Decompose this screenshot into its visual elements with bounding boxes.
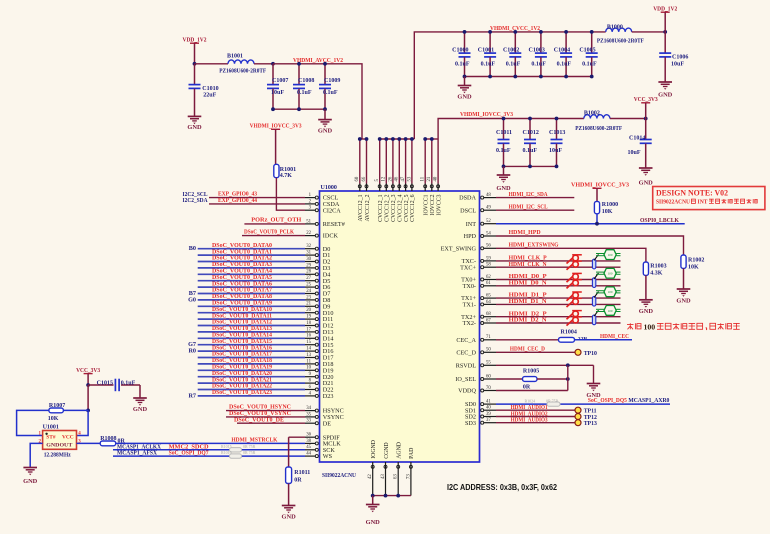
junction node IOVCC top C1011 (502, 117, 506, 121)
junction node CVCC top C1002 (513, 30, 517, 34)
svg-text:64: 64 (486, 300, 491, 305)
svg-text:TX2-: TX2- (463, 320, 476, 327)
svg-text:R1000: R1000 (602, 202, 618, 208)
wire DATA22 to D22 (198, 389, 305, 391)
svg-text:HDMI_CEC: HDMI_CEC (600, 333, 629, 340)
wire CEC_D to TP10 (496, 351, 575, 353)
wire SPDIF to R1011 (289, 437, 305, 467)
svg-text:TP11: TP11 (584, 409, 597, 415)
pin 32 D0 (305, 244, 330, 253)
capacitor C1014 (628, 119, 652, 169)
svg-text:68: 68 (486, 312, 491, 317)
capacitor C1011 (496, 119, 512, 167)
wire DATA1 to D1 (198, 254, 305, 256)
svg-text:33: 33 (306, 419, 311, 424)
svg-text:51: 51 (306, 219, 311, 224)
wire HDMI_CLK_P (496, 260, 621, 262)
ground R1011 (281, 506, 296, 521)
pin 62 TX0+ (461, 275, 496, 284)
svg-text:66: 66 (362, 176, 367, 181)
power flag VHDMI_IOVCC_3V3 pullup (250, 123, 302, 165)
capacitor C1006 (659, 32, 688, 82)
svg-text:32: 32 (306, 244, 311, 249)
svg-text:DESIGN NOTE: V02: DESIGN NOTE: V02 (656, 188, 729, 198)
svg-text:HDMI_CEC_D: HDMI_CEC_D (510, 345, 545, 352)
svg-text:SoC_OSPI_DQ5: SoC_OSPI_DQ5 (588, 397, 627, 404)
pin 12 CVCC12_2 (382, 176, 391, 222)
svg-text:34: 34 (306, 406, 311, 411)
pin 19 D11 (305, 315, 333, 324)
pin 17 D13 (305, 327, 333, 336)
svg-text:0.1uF: 0.1uF (496, 148, 511, 154)
wire I2C2_SCL to CSCL (209, 197, 305, 199)
svg-text:22: 22 (306, 231, 311, 236)
svg-text:4.3K: 4.3K (650, 270, 663, 276)
svg-text:12.288MHz: 12.288MHz (44, 452, 71, 458)
svg-text:54: 54 (486, 231, 491, 236)
wire HDMI_D2_N (496, 322, 621, 324)
svg-text:HPD: HPD (464, 233, 477, 240)
common-mode choke HDMI_D2_P/HDMI_D2_N (596, 306, 621, 316)
pin 6 D22 (305, 385, 333, 394)
svg-text:0R: 0R (294, 478, 302, 484)
pin 44 WS (305, 452, 333, 461)
svg-text:C1003: C1003 (529, 48, 545, 54)
svg-text:44: 44 (306, 452, 311, 457)
wire HDMI_D1_P (496, 297, 621, 299)
svg-text:10uF: 10uF (671, 62, 684, 68)
svg-text:B1000: B1000 (607, 24, 623, 30)
svg-text:G0: G0 (188, 296, 196, 303)
svg-text:RSVDL: RSVDL (456, 362, 477, 369)
svg-text:C1010: C1010 (202, 86, 218, 92)
svg-text:C1000: C1000 (452, 48, 468, 54)
pin 3 CI2CA (305, 206, 341, 215)
wire B1000 to VDD_1V2 (632, 31, 666, 33)
svg-text:GND: GND (133, 406, 148, 413)
junction node AVCC cap top C1009 (323, 62, 327, 66)
svg-text:56: 56 (486, 244, 491, 249)
svg-text:0.1uF: 0.1uF (323, 90, 338, 96)
svg-text:60: 60 (355, 176, 360, 181)
svg-text:45: 45 (306, 445, 311, 450)
resistor R1007 (48, 403, 65, 422)
svg-text:GND: GND (366, 519, 381, 526)
test point TP13 (575, 420, 597, 428)
svg-text:0.1uF: 0.1uF (557, 62, 572, 68)
wire CVCC caps bottom rail (465, 76, 592, 78)
wire DATA7 to D7 (198, 293, 305, 295)
svg-text:48: 48 (486, 193, 491, 198)
wire SD0 (496, 403, 670, 405)
svg-text:22uF: 22uF (203, 93, 216, 99)
svg-text:100: 100 (608, 290, 613, 294)
svg-text:TX1-: TX1- (463, 302, 476, 309)
pin 21 D9 (305, 302, 330, 311)
ground C1015 (133, 398, 148, 413)
svg-text:C1001: C1001 (478, 48, 494, 54)
resistor R1008 (100, 436, 125, 446)
ground C1014 (639, 168, 654, 187)
svg-text:0.1uF: 0.1uF (481, 62, 496, 68)
svg-text:R7: R7 (188, 392, 196, 399)
wire C1015 to ground (139, 385, 141, 398)
svg-text:DSCL: DSCL (460, 207, 476, 214)
svg-text:GND: GND (187, 124, 202, 131)
svg-text:31: 31 (306, 251, 311, 256)
wire HDMI_AUDIO3 (496, 422, 575, 424)
pin 20 D10 (305, 308, 333, 317)
pin 27 D5 (305, 276, 330, 285)
svg-text:IDCK: IDCK (323, 233, 339, 240)
wire AVCC rail (273, 64, 362, 139)
svg-text:10: 10 (306, 366, 311, 371)
ESD diode array HDMI_D1_P/HDMI_D1_N (567, 292, 582, 307)
pin 53 CVCC12_6 (407, 176, 416, 222)
svg-text:PZ1608U600-2R0TF: PZ1608U600-2R0TF (219, 68, 266, 74)
svg-text:DE: DE (323, 420, 331, 427)
power flag VDD_1V2 right (653, 6, 678, 32)
link to choke HDMI_D0_P (594, 273, 598, 279)
wire DATA2 to D2 (198, 261, 305, 263)
junction node RSVDL (566, 363, 570, 367)
pin 37 SD3 (465, 418, 496, 427)
wire R1000 to INT (596, 214, 598, 224)
coupling element HDMI_D2_P (592, 315, 595, 325)
junction node IOVCC bus 1 (423, 137, 427, 141)
svg-text:13: 13 (306, 353, 311, 358)
svg-text:EXT_SWING: EXT_SWING (441, 245, 477, 252)
pin 40 SD1 (465, 406, 496, 415)
svg-text:MCASP1_AXR0: MCASP1_AXR0 (628, 397, 669, 404)
svg-text:C1007: C1007 (272, 78, 288, 84)
ground C1006 (658, 82, 673, 99)
svg-text:HDMI_I2C_SDA: HDMI_I2C_SDA (509, 191, 548, 198)
capacitor C1004 (554, 32, 572, 77)
junction node CVCC top C1000 (463, 30, 467, 34)
wire AVCC caps bottom rail (273, 108, 325, 110)
power flag VDD_1V2 (183, 37, 208, 64)
svg-text:10K: 10K (602, 209, 613, 215)
pin 10 D19 (305, 366, 333, 375)
svg-text:10uF: 10uF (628, 150, 641, 156)
svg-text:35: 35 (306, 412, 311, 417)
junction node CVCC bus (410, 137, 414, 141)
common-mode choke HDMI_CLK_P/HDMI_CLK_N (596, 250, 621, 260)
svg-text:4.7K: 4.7K (280, 173, 293, 179)
svg-text:AVCC12_1: AVCC12_1 (358, 194, 364, 221)
svg-text:R1001: R1001 (280, 167, 296, 173)
wire DATA20 to D20 (198, 376, 305, 378)
junction nodes bottom GND (371, 494, 375, 498)
wire IOVCC pins bus (425, 139, 438, 184)
wire DATA8 to D8 (198, 299, 305, 301)
ferrite bead B1000 (597, 24, 644, 44)
svg-text:GND: GND (639, 180, 654, 187)
wire R1011 to ground (288, 484, 290, 506)
pin 35 VSYNC (305, 412, 344, 421)
svg-text:30: 30 (306, 257, 311, 262)
svg-text:C1004: C1004 (554, 48, 570, 54)
svg-text:IOVCC2: IOVCC2 (430, 194, 436, 215)
pin 59 TXC- (462, 256, 496, 265)
pin 39 SD2 (465, 412, 496, 421)
svg-text:VHDMI_IOVCC_3V3: VHDMI_IOVCC_3V3 (250, 123, 302, 130)
junction node CVCC bottom (513, 75, 517, 79)
svg-text:21: 21 (427, 176, 432, 181)
junction node CVCC top C1003 (539, 30, 543, 34)
svg-text:100: 100 (608, 253, 613, 257)
resistor R1003 (643, 262, 666, 276)
svg-text:C1015: C1015 (97, 380, 113, 386)
svg-text:0R 75R: 0R 75R (243, 450, 256, 455)
svg-text:VHDMI_IOVCC_3V3: VHDMI_IOVCC_3V3 (571, 182, 629, 189)
svg-text:CI2CA: CI2CA (323, 207, 341, 214)
svg-text:C1009: C1009 (324, 78, 340, 84)
pin 61 TX0- (463, 281, 496, 290)
svg-text:17: 17 (306, 327, 311, 332)
wire DSCL (496, 209, 574, 211)
svg-text:CVCC12_1: CVCC12_1 (378, 194, 384, 221)
svg-text:HDMI_MSTRCLK: HDMI_MSTRCLK (231, 437, 277, 444)
pin 14 D16 (305, 347, 333, 356)
svg-text:R1003: R1003 (650, 264, 666, 270)
svg-text:CVCC12_3: CVCC12_3 (391, 194, 397, 221)
pin 18 D12 (305, 321, 333, 330)
junction node IO_SEL (566, 377, 570, 381)
wire B1002 to VCC_3V3 (610, 118, 646, 120)
resistor R1000 (594, 201, 618, 215)
pin 9 D20 (305, 372, 333, 381)
junction node CVCC bus (404, 137, 408, 141)
junction node C1006 top (663, 30, 667, 34)
wire CEC_A to R1004 (496, 339, 559, 341)
wire DATA19 to D19 (198, 369, 305, 371)
svg-text:ST#: ST# (46, 434, 56, 440)
svg-text:DSoC_VOUT0_DE: DSoC_VOUT0_DE (234, 416, 284, 423)
svg-text:PZ1608U600-2R0TF: PZ1608U600-2R0TF (575, 126, 622, 132)
wire DATA17 to D17 (198, 357, 305, 359)
svg-text:49: 49 (486, 206, 491, 211)
note box DESIGN NOTE V02 (653, 187, 765, 210)
svg-text:0R: 0R (118, 439, 126, 445)
svg-text:VHDMI_IOVCC_3V3: VHDMI_IOVCC_3V3 (460, 111, 513, 118)
svg-text:B1001: B1001 (227, 54, 243, 60)
wire DATA9 to D9 (198, 305, 305, 307)
pin 11 D18 (305, 359, 333, 368)
svg-text:62: 62 (486, 275, 491, 280)
wire bottom GND pins (373, 470, 411, 496)
svg-text:SII9022ACNU: SII9022ACNU (656, 200, 691, 206)
svg-text:40: 40 (486, 406, 491, 411)
wire AVCC pins bus (360, 139, 367, 184)
wire HDMI_AUDIO1 (496, 409, 575, 411)
pin 65 TX1+ (461, 294, 496, 303)
DNI resistor ghost SD0 (525, 399, 561, 407)
wire B1001 to AVCC rail (254, 63, 273, 65)
svg-text:IOVCC1: IOVCC1 (424, 194, 430, 215)
svg-text:0R 75R: 0R 75R (243, 444, 256, 449)
svg-text:GND: GND (639, 308, 654, 315)
pin 5 CVCC12_1 (375, 179, 384, 222)
ground R1003 (639, 300, 654, 315)
svg-text:55: 55 (486, 361, 491, 366)
wire U1001 pin3 to R1008 (77, 442, 101, 444)
ground IOVCC caps (496, 166, 511, 192)
ferrite bead B1002 (575, 110, 622, 132)
svg-text:VDD_1V2: VDD_1V2 (653, 6, 678, 13)
svg-text:R1002: R1002 (688, 257, 704, 263)
pin 40 IOVCC3 (434, 176, 443, 215)
pin 58 TXC+ (460, 263, 496, 272)
svg-text:47: 47 (401, 176, 406, 181)
wire VDDQ (496, 390, 568, 392)
ground CVCC caps (457, 77, 472, 101)
svg-text:C1014: C1014 (629, 135, 645, 141)
svg-text:R1024: R1024 (525, 399, 536, 404)
svg-text:0.1uF: 0.1uF (121, 380, 136, 386)
svg-text:TP12: TP12 (584, 415, 597, 421)
IC U1000 SII9022ACNU body (320, 185, 480, 479)
svg-text:50: 50 (486, 348, 491, 353)
svg-text:C1012: C1012 (523, 130, 539, 136)
wire CVCC pins bus (380, 139, 415, 184)
svg-text:20: 20 (306, 308, 311, 313)
svg-text:INT: INT (698, 200, 708, 206)
svg-text:CVCC12_4: CVCC12_4 (398, 194, 404, 221)
junction node IOVCC top C1013 (555, 117, 559, 121)
pin 51 RESET# (305, 219, 345, 228)
svg-text:TXC+: TXC+ (460, 264, 476, 271)
pin 4 D23 (305, 391, 333, 400)
capacitor C1007 (267, 64, 288, 109)
ground U1001 (23, 468, 38, 486)
svg-text:15: 15 (306, 340, 311, 345)
svg-text:IOGND: IOGND (371, 440, 377, 459)
svg-text:37: 37 (486, 418, 491, 423)
svg-text:23: 23 (306, 295, 311, 300)
wire DATA5 to D5 (198, 280, 305, 282)
junction node CVCC bottom (463, 75, 467, 79)
svg-text:CEC_D: CEC_D (456, 349, 476, 356)
junction node IOVCC bus 2 (430, 137, 434, 141)
DNI resistor ghost R1016 (221, 450, 256, 458)
svg-text:21: 21 (306, 302, 311, 307)
wire VHDMI_CVCC_1V2 rail (414, 32, 605, 139)
junction node CVCC bus (397, 137, 401, 141)
wire HDMI_D2_P (496, 316, 621, 318)
pin 26 CVCC12_3 (388, 176, 397, 222)
svg-text:D23: D23 (323, 393, 334, 400)
svg-text:38: 38 (306, 439, 311, 444)
pin 15 D15 (305, 340, 333, 349)
pin 16 D14 (305, 334, 333, 343)
wire DATA4 to D4 (198, 273, 305, 275)
svg-text:C1008: C1008 (298, 78, 314, 84)
pin 30 D2 (305, 257, 330, 266)
coupling element HDMI_D0_P (592, 278, 595, 288)
wire RSVDL-VDDQ vertical (567, 365, 569, 390)
pin 43 CGND (381, 442, 390, 479)
junction node AVCC cap top C1008 (297, 62, 301, 66)
pin 50 CEC_D (456, 348, 496, 357)
ESD diode array HDMI_CLK_P/HDMI_CLK_N (567, 255, 582, 270)
ground AVCC caps (318, 109, 333, 134)
svg-text:B1002: B1002 (584, 110, 600, 116)
svg-text:GNDOUT: GNDOUT (46, 443, 72, 449)
svg-text:60: 60 (486, 374, 491, 379)
svg-text:52: 52 (486, 219, 491, 224)
svg-text:VCC: VCC (62, 434, 74, 440)
svg-text:CGND: CGND (384, 442, 390, 458)
wire VCC_3V3 down to R1007 node (87, 385, 89, 410)
svg-text:U1000: U1000 (321, 185, 337, 191)
junction node CVCC bottom (564, 75, 568, 79)
pin 34 HSYNC (305, 406, 344, 415)
capacitor C1003 (529, 32, 547, 77)
svg-text:CVCC12_6: CVCC12_6 (410, 194, 416, 221)
svg-text:27: 27 (306, 276, 311, 281)
svg-text:29: 29 (306, 263, 311, 268)
pin 28 D4 (305, 270, 330, 279)
svg-text:10K: 10K (48, 416, 59, 422)
text differential impedance note (627, 322, 740, 331)
svg-text:R1011: R1011 (294, 470, 310, 476)
pin 38 MCLK (305, 439, 341, 448)
svg-text:VDDQ: VDDQ (458, 388, 476, 395)
svg-text:HDMI_I2C_SCL: HDMI_I2C_SCL (509, 203, 548, 210)
junction node CVCC bottom (488, 75, 492, 79)
svg-text:C1002: C1002 (503, 48, 519, 54)
svg-text:24: 24 (306, 289, 311, 294)
link to choke HDMI_D1_P (594, 292, 598, 298)
svg-text:VCC_3V3: VCC_3V3 (634, 96, 659, 103)
svg-text:10uF: 10uF (549, 148, 562, 154)
pin 42 IOGND (368, 440, 377, 479)
wire DATA15 to D15 (198, 344, 305, 346)
common-mode choke HDMI_D1_P/HDMI_D1_N (596, 287, 621, 297)
wire SCK line (113, 449, 305, 451)
test point TP12 (575, 414, 597, 422)
junction nodes AVCC bus (358, 137, 362, 141)
power flag VHDMI_IOVCC_3V3 INT pullup (571, 182, 629, 202)
wire DE (237, 422, 305, 424)
pin 33 DE (305, 419, 331, 428)
wire IO_SEL to R1005 (496, 378, 523, 380)
pin 8 D21 (305, 379, 333, 388)
pin 66 AVCC12_2 (362, 176, 371, 221)
svg-text:SD3: SD3 (465, 420, 476, 427)
ESD diode array HDMI_D0_P/HDMI_D0_N (567, 273, 582, 288)
wire DATA13 to D13 (198, 331, 305, 333)
svg-text:11: 11 (306, 359, 311, 364)
svg-text:PZ1608U600-2R0TF: PZ1608U600-2R0TF (597, 39, 644, 45)
link to choke HDMI_CLK_P (594, 254, 598, 260)
svg-text:R0: R0 (188, 348, 196, 355)
pin 48 DSDA (459, 193, 496, 202)
svg-text:71: 71 (486, 335, 491, 340)
wire VDD_1V2 to B1001 (195, 63, 229, 65)
svg-text:26: 26 (388, 176, 393, 181)
svg-text:19: 19 (306, 315, 311, 320)
svg-text:R1005: R1005 (523, 369, 539, 375)
svg-text:53: 53 (407, 176, 412, 181)
capacitor C1001 (478, 32, 496, 77)
pin 36 SPDIF (305, 433, 340, 442)
junction node CVCC bus (384, 137, 388, 141)
wire DATA21 to D21 (198, 382, 305, 384)
wire to chip ground (372, 496, 374, 505)
